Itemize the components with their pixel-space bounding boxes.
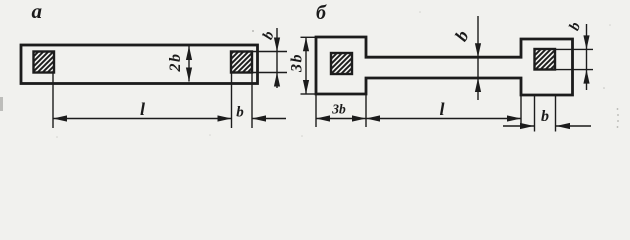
dimension b bottom-right tail (fig b)	[556, 125, 591, 127]
extension line right-top (fig a b dim)	[252, 51, 287, 53]
extension line b-left bottom (fig b)	[534, 95, 536, 132]
l arrow right (fig a)	[218, 115, 232, 121]
l arrow left (fig a)	[53, 115, 67, 121]
side b arrow down (fig a)	[274, 38, 280, 52]
svg-text:b: b	[541, 108, 549, 125]
extension line l-left (fig a)	[52, 73, 54, 129]
2b arrow down	[186, 68, 192, 82]
svg-text:l: l	[439, 99, 444, 119]
svg-text:3b: 3b	[331, 102, 346, 117]
hatched square left (fig b)	[331, 53, 352, 74]
extension line right-bottom (fig a b dim)	[252, 72, 287, 74]
hatched square left (fig a)	[34, 52, 55, 73]
svg-text:3b: 3b	[289, 53, 306, 73]
extension line 3b top (fig b)	[301, 36, 317, 38]
3b arrow right (fig b)	[352, 115, 366, 121]
extension line 3b-right bottom (fig b)	[365, 94, 367, 127]
svg-text:б: б	[316, 2, 327, 24]
svg-text:l: l	[140, 99, 145, 119]
mid b arrow up (fig b)	[475, 78, 481, 92]
side b arrow up (fig a)	[274, 73, 280, 87]
bar (figure a body)	[21, 45, 258, 84]
extension line 3b-left bottom (fig b)	[315, 94, 317, 127]
dimension 3b vertical line (fig b)	[305, 37, 307, 94]
dimension b bottom-left tail (fig b)	[503, 125, 534, 127]
extension line b-right (fig a)	[251, 73, 253, 129]
svg-text:а: а	[32, 0, 43, 23]
scan speckles	[0, 11, 619, 138]
extension line 3b bottom (fig b)	[301, 93, 317, 95]
b arrow pointing left (fig a bottom)	[252, 115, 266, 121]
b arrow pointing right (fig b bottom)	[520, 123, 534, 129]
dimension b tail (fig a bottom)	[252, 118, 286, 120]
side b dimension line (fig a)	[276, 28, 278, 88]
extension line right-top (fig b right b dim)	[555, 48, 593, 50]
right b arrow down (fig b)	[583, 35, 589, 49]
dimension 3b bottom line (fig b)	[316, 118, 366, 120]
dimension 2b line (fig a)	[188, 46, 190, 82]
mid b dimension line (fig b)	[477, 16, 479, 100]
3b arrow left (fig b)	[316, 115, 330, 121]
3b arrow down (fig b)	[303, 80, 309, 94]
dimension l line (fig b)	[366, 118, 521, 120]
right b dimension line (fig b)	[586, 24, 588, 90]
b arrow pointing left (fig b bottom)	[556, 123, 570, 129]
stepped bar outline (figure b body)	[316, 37, 573, 95]
hatched square right (fig b)	[535, 49, 556, 70]
l arrow left (fig b)	[366, 115, 380, 121]
svg-text:b: b	[236, 105, 244, 121]
svg-text:2b: 2b	[167, 53, 184, 73]
hatched square right (fig a)	[231, 52, 252, 73]
right b arrow up (fig b)	[583, 70, 589, 84]
3b arrow up (fig b)	[303, 37, 309, 51]
mid b arrow down (fig b)	[475, 43, 481, 57]
extension line l-right bottom (fig b)	[520, 95, 522, 127]
extension line right-bottom (fig b right b dim)	[555, 69, 593, 71]
paper background	[0, 0, 630, 141]
extension line b-right bottom (fig b)	[555, 95, 557, 132]
extension line l-right (fig a)	[231, 73, 233, 129]
dimension l line (fig a)	[53, 118, 232, 120]
2b arrow up	[186, 46, 192, 60]
l arrow right (fig b)	[507, 115, 521, 121]
